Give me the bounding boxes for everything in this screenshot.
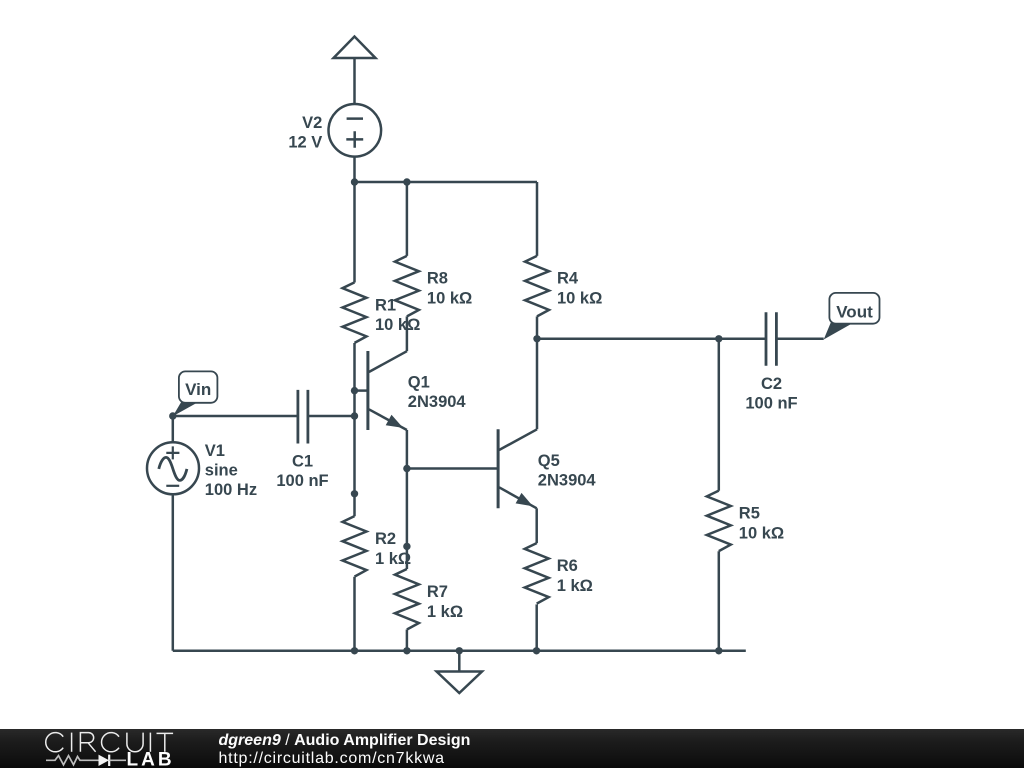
svg-text:2N3904: 2N3904 — [538, 471, 597, 489]
svg-text:Vout: Vout — [836, 303, 873, 322]
svg-text:R7: R7 — [427, 583, 448, 601]
svg-text:Q5: Q5 — [538, 452, 560, 470]
svg-text:10 kΩ: 10 kΩ — [739, 525, 784, 543]
svg-text:100 Hz: 100 Hz — [205, 481, 257, 499]
svg-text:R1: R1 — [375, 296, 396, 314]
svg-text:V1: V1 — [205, 442, 225, 460]
svg-text:R5: R5 — [739, 505, 760, 523]
svg-text:V2: V2 — [302, 114, 322, 132]
svg-text:LAB: LAB — [127, 750, 175, 768]
svg-text:Q1: Q1 — [408, 374, 430, 392]
svg-text:R6: R6 — [557, 557, 578, 575]
svg-text:1 kΩ: 1 kΩ — [427, 603, 463, 621]
svg-text:100 nF: 100 nF — [745, 394, 797, 412]
svg-text:10 kΩ: 10 kΩ — [557, 290, 602, 308]
svg-text:C2: C2 — [761, 375, 782, 393]
svg-text:dgreen9 / Audio Amplifier Desi: dgreen9 / Audio Amplifier Design — [219, 732, 471, 749]
svg-text:C1: C1 — [292, 453, 313, 471]
svg-text:sine: sine — [205, 462, 238, 480]
svg-text:12 V: 12 V — [288, 134, 322, 152]
svg-text:10 kΩ: 10 kΩ — [375, 316, 420, 334]
svg-text:1 kΩ: 1 kΩ — [375, 550, 411, 568]
svg-text:http://circuitlab.com/cn7kkwa: http://circuitlab.com/cn7kkwa — [219, 750, 445, 767]
svg-text:1 kΩ: 1 kΩ — [557, 577, 593, 595]
svg-text:R8: R8 — [427, 270, 448, 288]
svg-text:2N3904: 2N3904 — [408, 393, 467, 411]
svg-text:R2: R2 — [375, 530, 396, 548]
svg-text:R4: R4 — [557, 270, 579, 288]
svg-text:Vin: Vin — [185, 380, 211, 399]
svg-text:10 kΩ: 10 kΩ — [427, 290, 472, 308]
svg-text:100 nF: 100 nF — [276, 472, 328, 490]
